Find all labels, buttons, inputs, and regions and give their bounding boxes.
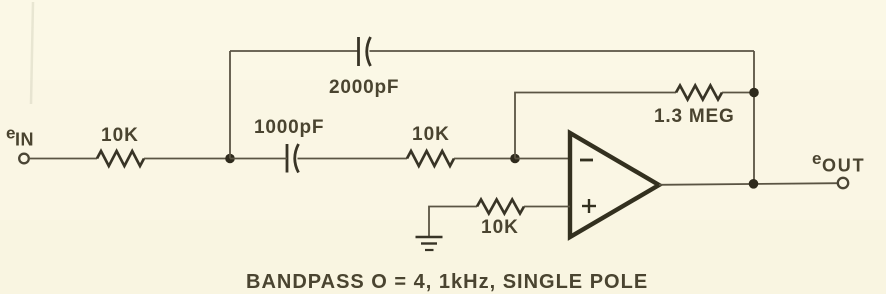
svg-text:10K: 10K: [481, 217, 519, 238]
svg-text:10K: 10K: [412, 124, 450, 145]
wire right vertical from top rail to output: [753, 51, 755, 184]
label eIN: [6, 124, 34, 150]
svg-text:IN: IN: [15, 130, 34, 150]
op-amp U1: [570, 133, 659, 237]
label 1.3 MEG: [654, 106, 735, 127]
caption: [246, 271, 648, 293]
wire R1 to node A: [144, 158, 230, 160]
op-amp minus sign: [580, 159, 593, 162]
wire R3 to op-amp plus input: [524, 206, 570, 208]
node A junction: [225, 154, 235, 164]
svg-text:10K: 10K: [101, 125, 139, 146]
scan artifact streak: [31, 2, 33, 104]
svg-text:1.3 MEG: 1.3 MEG: [654, 106, 735, 127]
resistor R3 10K: [477, 200, 524, 214]
wire R2 to node B: [454, 158, 515, 160]
capacitor C2 2000pF: [359, 37, 371, 66]
node eIN terminal: [19, 154, 29, 164]
capacitor C1 1000pF: [287, 144, 299, 173]
svg-text:e: e: [812, 149, 821, 168]
label 1000pF: [254, 117, 324, 138]
wire R4 to right vertical: [722, 92, 754, 94]
resistor R1 10K: [97, 151, 144, 166]
wire top rail left segment: [230, 50, 358, 52]
svg-text:2000pF: 2000pF: [329, 77, 399, 98]
resistor R4 1.3 MEG: [676, 86, 722, 100]
label 10K (R2): [412, 124, 450, 145]
wire ground leg to R3: [429, 207, 477, 237]
wire op-amp output to eOUT: [659, 183, 838, 185]
svg-text:OUT: OUT: [822, 156, 865, 176]
wire C1 to R2: [298, 158, 408, 160]
svg-text:1000pF: 1000pF: [254, 117, 324, 138]
label eOUT: [812, 149, 865, 176]
resistor R2 10K: [407, 151, 454, 166]
svg-text:BANDPASS O = 4, 1kHz, SINGLE P: BANDPASS O = 4, 1kHz, SINGLE POLE: [246, 271, 648, 293]
junction feedback node: [749, 88, 759, 98]
junction output node: [749, 179, 759, 189]
node eOUT terminal: [838, 178, 848, 188]
ground: [416, 237, 443, 250]
wire node B to op-amp inverting input: [515, 158, 570, 160]
label 2000pF: [329, 77, 399, 98]
wire node A to C1: [230, 158, 287, 160]
wire node B up to feedback rail: [515, 93, 676, 159]
wire input to R1: [29, 158, 97, 160]
op-amp plus sign: [582, 199, 596, 213]
node B junction: [510, 154, 520, 164]
label 10K (R1): [101, 125, 139, 146]
wire top rail right segment: [370, 50, 755, 52]
wire node A up to top rail: [229, 51, 231, 159]
label 10K (R3): [481, 217, 519, 238]
